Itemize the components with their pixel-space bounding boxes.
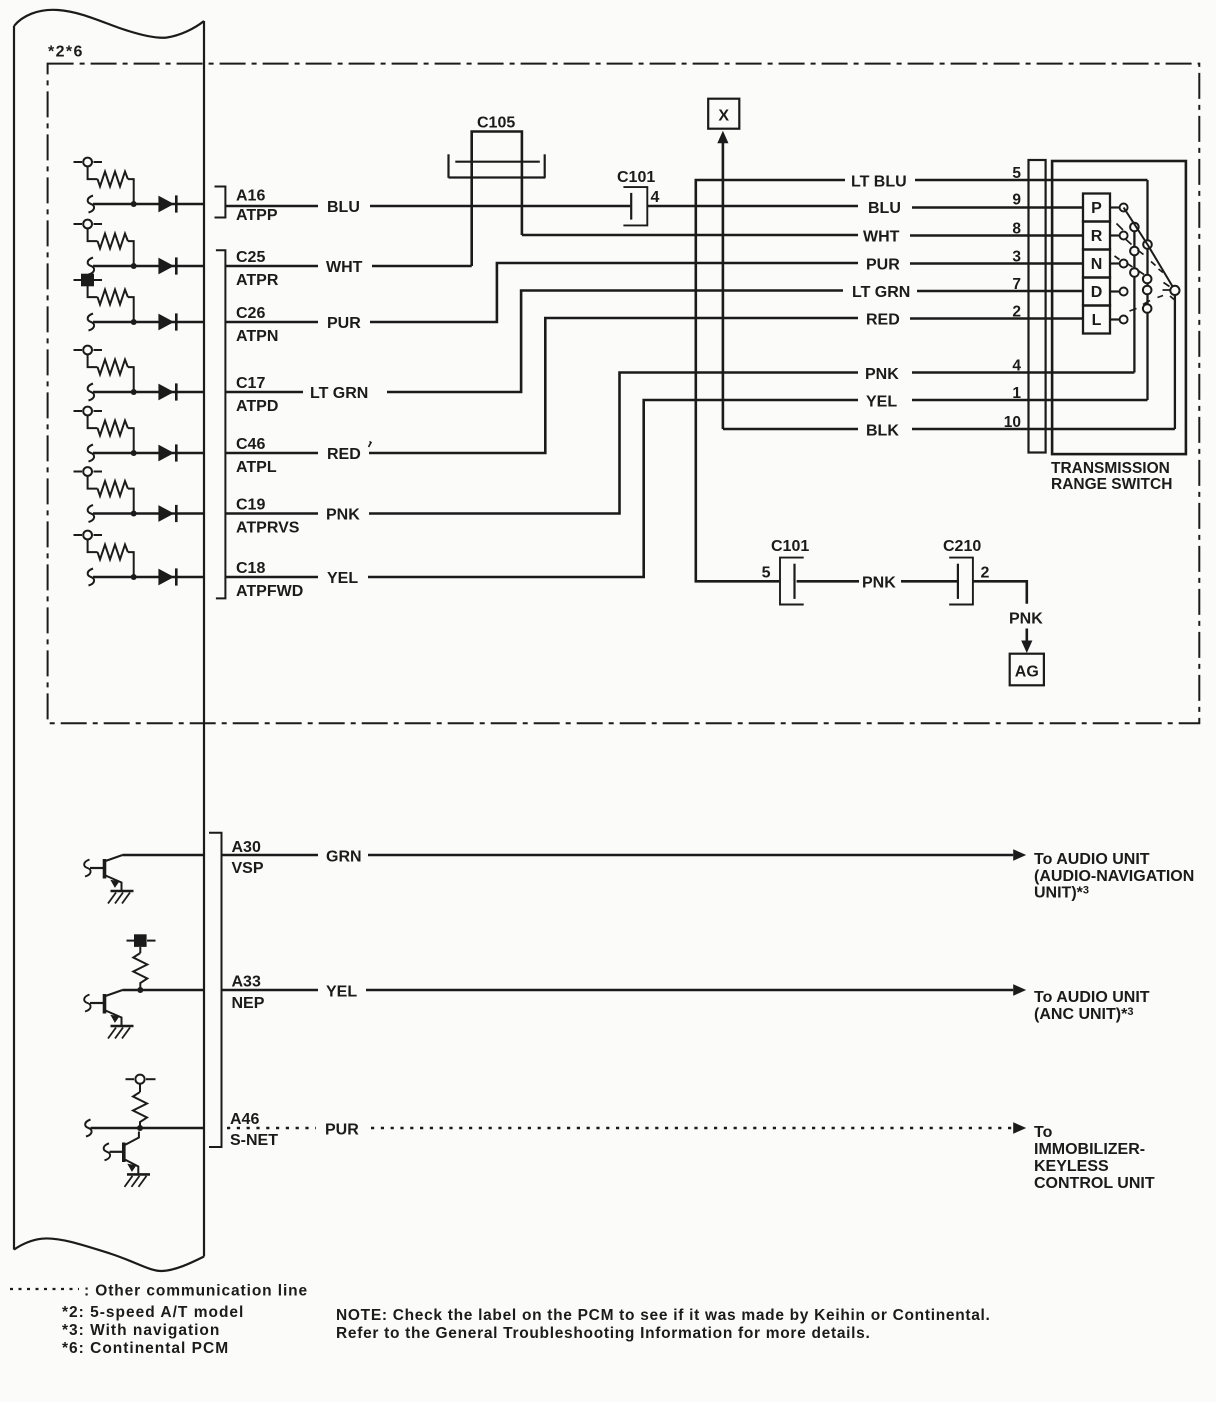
wire C25 internal row with break symbol (88, 258, 204, 275)
svg-text:A30: A30 (232, 839, 261, 856)
svg-text:R: R (1091, 228, 1103, 245)
wiper arm solid (P position) (1124, 208, 1175, 291)
svg-text:(AUDIO-NAVIGATION: (AUDIO-NAVIGATION (1034, 868, 1194, 885)
transistor VSP driver Q1 (84, 855, 133, 904)
svg-text:To AUDIO UNIT: To AUDIO UNIT (1034, 851, 1150, 868)
label To AUDIO UNIT (ANC UNIT)*3 (1034, 989, 1150, 1023)
switch position box N (1083, 250, 1110, 278)
wire A46/S-NET internal row with break symbol (85, 1120, 204, 1137)
svg-text:*3: With navigation: *3: With navigation (62, 1322, 220, 1339)
svg-text:C26: C26 (236, 305, 265, 322)
svg-text:C46: C46 (236, 436, 265, 453)
svg-text:IMMOBILIZER-: IMMOBILIZER- (1034, 1141, 1145, 1158)
contact stub and circle D (1110, 288, 1128, 296)
svg-text:(ANC UNIT)*3: (ANC UNIT)*3 (1034, 1006, 1133, 1023)
wire C18 internal row with break symbol (88, 569, 204, 586)
arrow to X (sheet reference) (717, 131, 728, 429)
svg-text:GRN: GRN (326, 849, 362, 866)
junction S-NET (137, 1125, 143, 1131)
pin label C25 / ATPR (236, 249, 279, 289)
pin label C19 / ATPRVS (236, 497, 300, 537)
svg-text:5: 5 (762, 565, 771, 582)
legend other communication line (10, 1283, 308, 1300)
svg-text:ATPFWD: ATPFWD (236, 583, 303, 600)
resistor (pull-up) of C19 circuit (88, 476, 134, 514)
svg-text:TRANSMISSION: TRANSMISSION (1051, 460, 1170, 477)
resistor (pull-up) of C26 circuit (88, 284, 134, 322)
svg-text:C19: C19 (236, 497, 265, 514)
svg-text:10: 10 (1004, 414, 1021, 431)
transistor S-NET driver Q3 (104, 1132, 150, 1187)
connector bracket pins C25-C18 (216, 250, 226, 598)
switch position box D (1083, 278, 1110, 306)
svg-text:4: 4 (651, 189, 660, 206)
wire C26 internal row with break symbol (88, 314, 204, 331)
svg-text:3: 3 (1012, 249, 1021, 266)
svg-text:RED: RED (866, 312, 900, 329)
resistor (pull-up) S-NET (133, 1084, 147, 1128)
svg-text:ATPL: ATPL (236, 459, 277, 476)
svg-text:PUR: PUR (325, 1122, 359, 1139)
svg-text:AG: AG (1015, 664, 1039, 681)
svg-text:RED: RED (327, 446, 361, 463)
svg-text:To: To (1034, 1124, 1053, 1141)
switch position box P (1083, 194, 1110, 222)
pull-up square terminal NEP (127, 934, 156, 947)
wire PNK (C101 to C210) (797, 575, 957, 592)
svg-text:PNK: PNK (326, 507, 360, 524)
svg-text:5: 5 (1012, 165, 1021, 182)
junction C18 (131, 574, 137, 580)
diode of C19 circuit (158, 505, 176, 522)
sheet reference box X (708, 99, 739, 129)
svg-text:*2: 5-speed A/T model: *2: 5-speed A/T model (62, 1304, 244, 1321)
svg-text:VSP: VSP (232, 860, 264, 877)
svg-text:*6: Continental PCM: *6: Continental PCM (62, 1340, 229, 1357)
inline connector C101 pin 5 in PNK ground wire (762, 538, 810, 605)
svg-text:C18: C18 (236, 560, 265, 577)
svg-text:C25: C25 (236, 249, 265, 266)
svg-text:P: P (1091, 200, 1102, 217)
diode of C25 circuit (158, 257, 176, 274)
pull-up terminal S-NET (126, 1075, 156, 1084)
resistor (pull-up) of C18 circuit (88, 539, 134, 577)
pull-up terminal of C19 circuit (74, 467, 103, 476)
wire YEL (C18/ATPFWD to switch pin 1) (225, 394, 1147, 588)
label To IMMOBILIZER-KEYLESS CONTROL UNIT (1034, 1124, 1155, 1192)
svg-text:To AUDIO UNIT: To AUDIO UNIT (1034, 989, 1150, 1006)
svg-text:ATPP: ATPP (236, 207, 278, 224)
svg-text:C210: C210 (943, 538, 981, 555)
svg-text:BLK: BLK (866, 423, 899, 440)
pull-up terminal of C46 circuit (74, 407, 103, 416)
diode of C18 circuit (158, 568, 176, 585)
wire WHT (C25/ATPR to switch pin 8) (225, 229, 1083, 277)
pull-up terminal of C25 circuit (74, 220, 103, 229)
svg-text:NOTE: Check the label on the P: NOTE: Check the label on the PCM to see … (336, 1307, 991, 1324)
switch position box R (1083, 222, 1110, 250)
junction C19 (131, 511, 137, 517)
diode of C46 circuit (158, 444, 176, 461)
connector bracket pins A30-A46 (209, 833, 222, 1147)
contact stub and circle L (1110, 316, 1128, 324)
contact stub and circle P (1110, 204, 1128, 212)
svg-text:A46: A46 (230, 1111, 259, 1128)
inline connector C210 pin 2 (943, 538, 990, 605)
svg-text:1: 1 (1012, 385, 1021, 402)
label TRANSMISSION RANGE SWITCH (1051, 460, 1172, 493)
svg-text:RANGE SWITCH: RANGE SWITCH (1051, 476, 1172, 493)
junction C26 (131, 319, 137, 325)
switch internal wire pin5/pin1 riser (1146, 180, 1148, 400)
PCM module torn-paper band outline (14, 10, 204, 1271)
contact stub and circle N (1110, 260, 1128, 268)
pin label C46 / ATPL (236, 436, 277, 476)
svg-text:9: 9 (1012, 192, 1021, 209)
switch position box L (1083, 306, 1110, 334)
svg-text:WHT: WHT (326, 259, 363, 276)
svg-text:LT BLU: LT BLU (851, 174, 907, 191)
svg-text:PUR: PUR (327, 315, 361, 332)
svg-text:C105: C105 (477, 115, 515, 132)
wire BLU (A16/ATPP to switch pin 9) (225, 199, 1083, 217)
svg-text:2: 2 (1012, 304, 1021, 321)
svg-text:7: 7 (1012, 276, 1021, 293)
pin label C26 / ATPN (236, 305, 278, 345)
svg-text:BLU: BLU (868, 200, 901, 217)
contact circles on pin5/pin1 riser (1143, 240, 1152, 313)
wire C46 internal row with break symbol (88, 445, 204, 462)
resistor (pull-up) of A16 circuit (88, 166, 134, 204)
wire PNK to ground AG (973, 581, 1043, 653)
switch connector strip (1029, 160, 1046, 453)
pull-up terminal of C26 circuit (74, 274, 103, 287)
resistor (pull-up) of C46 circuit (88, 415, 134, 453)
svg-text:ATPD: ATPD (236, 398, 278, 415)
svg-text:2: 2 (981, 565, 990, 582)
transistor NEP driver Q2 (84, 990, 133, 1039)
pull-up terminal of C17 circuit (74, 346, 103, 355)
resistor (pull-up) NEP (133, 947, 147, 990)
note about PCM label (336, 1307, 991, 1342)
svg-text:LT GRN: LT GRN (852, 284, 910, 301)
stray scan mark near RED label (369, 442, 372, 448)
svg-text:WHT: WHT (863, 229, 900, 246)
wire A30/VSP internal row (123, 854, 205, 857)
dash-dot option boundary box (48, 64, 1200, 724)
wire BLK (switch pin 10 to X branch) (723, 423, 1175, 440)
wire A16 internal row with break symbol (88, 196, 204, 213)
svg-text:CONTROL UNIT: CONTROL UNIT (1034, 1175, 1155, 1192)
junction A16 (131, 201, 137, 207)
wire A33/NEP internal row (123, 989, 205, 992)
svg-text:YEL: YEL (326, 984, 357, 1001)
svg-text:YEL: YEL (327, 570, 358, 587)
svg-text:BLU: BLU (327, 199, 360, 216)
svg-text:NEP: NEP (232, 995, 265, 1012)
svg-text:KEYLESS: KEYLESS (1034, 1158, 1109, 1175)
svg-text:PNK: PNK (862, 575, 896, 592)
svg-text:8: 8 (1012, 221, 1021, 238)
svg-text:PNK: PNK (865, 366, 899, 383)
pin label C18 / ATPFWD (236, 560, 303, 600)
svg-text:ATPRVS: ATPRVS (236, 520, 300, 537)
junction C17 (131, 389, 137, 395)
resistor (pull-up) of C25 circuit (88, 228, 134, 266)
wire PUR (A46/S-NET communication line, dashed) (227, 1122, 1026, 1139)
pin label A33 / NEP (232, 974, 265, 1013)
svg-text:PNK: PNK (1009, 611, 1043, 628)
pin label C17 / ATPD (236, 375, 278, 415)
svg-text:N: N (1091, 256, 1103, 273)
contact circles on pin4 riser (1130, 223, 1139, 277)
svg-text:S-NET: S-NET (230, 1132, 278, 1149)
junction NEP (137, 987, 143, 993)
wire PNK (C19/ATPRVS to switch pin 4) (225, 366, 1134, 524)
svg-text:D: D (1091, 284, 1103, 301)
junction C46 (131, 450, 137, 456)
pull-up terminal of C18 circuit (74, 531, 103, 540)
wire C17 internal row with break symbol (88, 384, 204, 401)
diode of C26 circuit (158, 313, 176, 330)
svg-text:UNIT)*3: UNIT)*3 (1034, 885, 1089, 902)
wiper pivot circle and pin10 riser (1170, 286, 1179, 429)
svg-text:ATPR: ATPR (236, 272, 279, 289)
ground point box AG (1010, 654, 1044, 686)
svg-text:A33: A33 (232, 974, 261, 991)
diode of A16 circuit (158, 195, 176, 212)
diode of C17 circuit (158, 383, 176, 400)
wire PUR (C26/ATPN to switch pin 3) (225, 257, 1083, 333)
svg-text:PUR: PUR (866, 257, 900, 274)
wire C19 internal row with break symbol (88, 505, 204, 522)
wire RED (C46/ATPL to switch pin 2) (225, 312, 1083, 464)
svg-text:C17: C17 (236, 375, 265, 392)
wire LT GRN (C17/ATPD to switch pin 7) (225, 284, 1083, 402)
svg-text:Refer to the General Troublesh: Refer to the General Troubleshooting Inf… (336, 1325, 871, 1342)
wire GRN (A30/VSP to audio unit) (222, 849, 1027, 866)
pull-up terminal of A16 circuit (74, 158, 103, 167)
label To AUDIO UNIT (AUDIO-NAVIGATION UNIT)*3 (1034, 851, 1194, 902)
inline connector C105 in WHT wire (449, 115, 546, 267)
pin label A16 / ATPP (236, 188, 278, 225)
svg-text:4: 4 (1012, 358, 1021, 375)
svg-text:YEL: YEL (866, 394, 897, 411)
junction C25 (131, 263, 137, 269)
svg-text:*2*6: *2*6 (48, 44, 84, 61)
svg-text:L: L (1092, 312, 1102, 329)
pin label A30 / VSP (232, 839, 264, 877)
svg-text:X: X (718, 108, 729, 125)
svg-text:C101: C101 (771, 538, 809, 555)
pin label A46 / S-NET (230, 1111, 278, 1149)
contact stub and circle R (1110, 232, 1128, 240)
wiper alternate position dashes (1115, 224, 1175, 312)
transmission range switch box (1052, 161, 1186, 454)
svg-text:ATPN: ATPN (236, 328, 278, 345)
svg-text:: Other communication line: : Other communication line (84, 1283, 308, 1300)
connector bracket pin A16 (215, 187, 226, 218)
wire YEL (A33/NEP to ANC unit) (222, 984, 1027, 1001)
wire LT BLU (switch pin 5 to C101 pin 5) (696, 174, 1148, 582)
svg-text:C101: C101 (617, 169, 655, 186)
resistor (pull-up) of C17 circuit (88, 354, 134, 392)
svg-text:LT GRN: LT GRN (310, 385, 368, 402)
svg-text:A16: A16 (236, 188, 265, 205)
switch internal wire pin4 riser (1133, 227, 1135, 373)
inline connector C101 pin 4 in BLU wire (617, 169, 660, 225)
